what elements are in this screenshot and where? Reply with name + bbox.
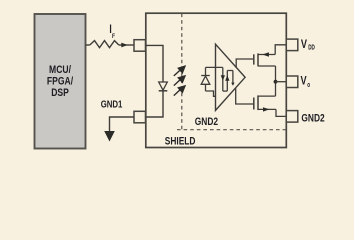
shield dashed boundary [177, 14, 286, 130]
label IF [109, 24, 115, 40]
output rail between transistors [275, 66, 277, 96]
svg-text:o: o [307, 82, 310, 89]
PMOS Q1 [254, 53, 276, 66]
wire NMOS source to GND2 pin [276, 109, 286, 116]
node Vo junction [274, 80, 278, 84]
svg-text:F: F [112, 34, 115, 41]
svg-text:MCU/: MCU/ [49, 64, 71, 76]
svg-text:GND2: GND2 [195, 116, 219, 129]
svg-text:V: V [301, 74, 308, 88]
wire anode pin to LED [146, 45, 164, 82]
photodiode top rail [206, 66, 223, 68]
ground GND1 symbol [104, 131, 115, 142]
resistor RF [90, 41, 119, 48]
label VDD [301, 38, 316, 52]
pin Vo [286, 76, 298, 88]
pin VDD [286, 39, 298, 51]
wire MCU to resistor [86, 44, 90, 46]
NMOS Q2 [254, 95, 276, 110]
svg-text:DSP: DSP [51, 87, 69, 99]
wire LED to cathode pin [146, 91, 164, 117]
LED D1 [159, 82, 168, 91]
photodiode bottom rail to amp input [206, 91, 216, 96]
svg-text:GND1: GND1 [101, 98, 123, 109]
svg-text:GND2: GND2 [301, 113, 325, 126]
pin 1 anode (left top) [134, 40, 146, 52]
svg-text:DD: DD [308, 45, 315, 52]
op-amp U1 [216, 44, 246, 110]
pin 2 cathode (left bottom) [134, 111, 146, 123]
wire cathode pin to GND1 [110, 117, 135, 131]
svg-text:SHIELD: SHIELD [165, 136, 196, 149]
svg-text:V: V [301, 38, 308, 52]
current direction arrow IF [121, 43, 127, 48]
detector current arrows (inside amp) [223, 67, 233, 91]
wire resistor to arrow [119, 44, 134, 46]
label Vo [301, 74, 311, 89]
pin GND2 [286, 111, 298, 123]
wire PMOS source to VDD pin [275, 45, 286, 55]
MCU/FPGA/DSP block U2 [35, 14, 86, 149]
wire node to Vo pin [276, 81, 287, 83]
gate tap wires from amp edges [236, 59, 253, 68]
photodiode D2 [201, 67, 210, 91]
svg-text:FPGA/: FPGA/ [47, 76, 73, 88]
light emission arrows [174, 66, 185, 95]
package outline [146, 13, 286, 147]
